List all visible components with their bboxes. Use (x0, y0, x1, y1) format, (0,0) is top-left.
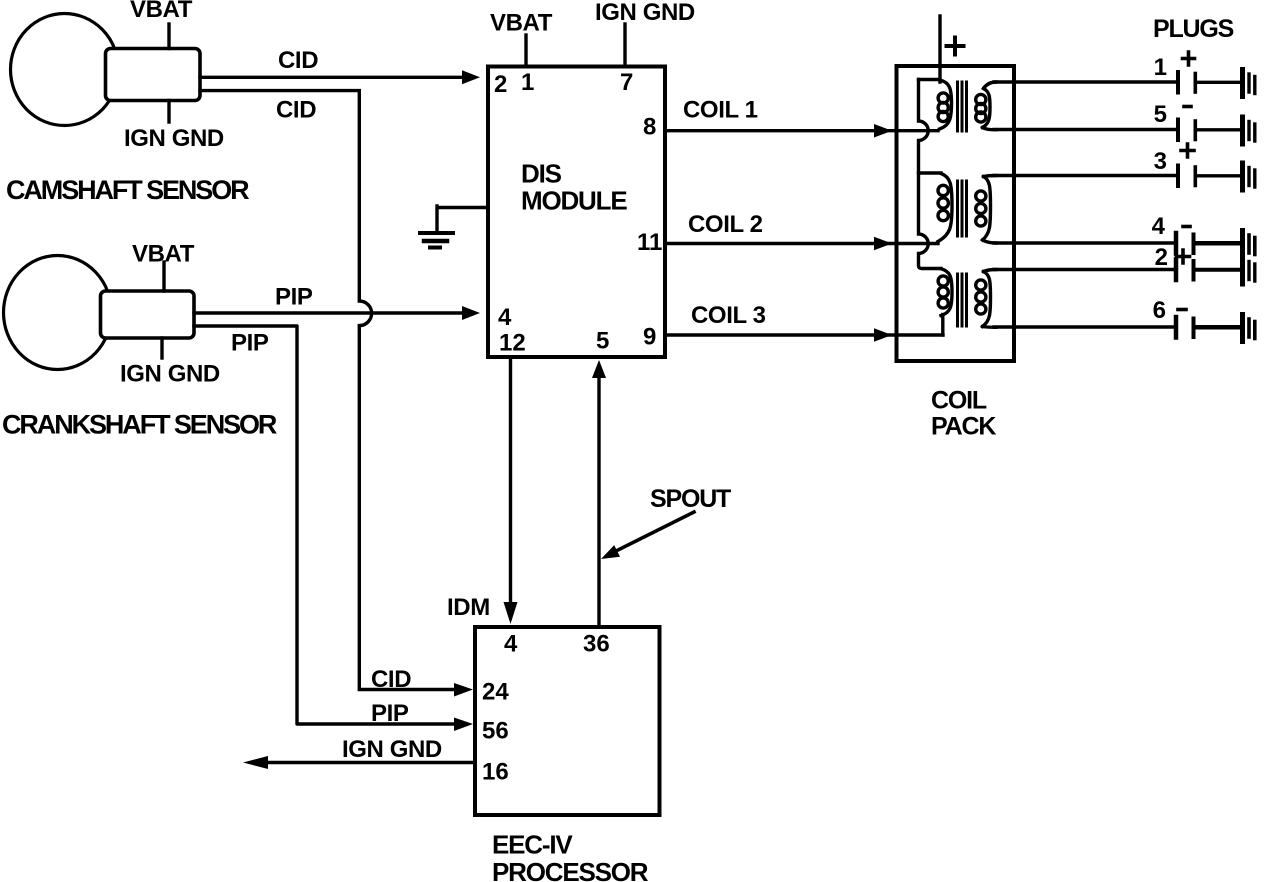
IGN GND stub into DIS pin 7 (623, 24, 626, 66)
plug 5 wire (994, 128, 1176, 131)
crankshaft sensor connector rect (101, 291, 195, 338)
plug 6 spark gap electrodes (1174, 317, 1179, 338)
T2 secondary top stub to plug 3 wire (984, 176, 997, 177)
svg-text:COIL 2: COIL 2 (688, 211, 763, 238)
transformer T1 secondary winding (983, 89, 991, 128)
arrowhead COIL 1 into coil pack (874, 124, 892, 138)
svg-text:9: 9 (643, 324, 656, 351)
wire SPOUT (EEC pin 36 up to DIS pin 5) (597, 378, 600, 627)
crankshaft sensor body circle (4, 256, 112, 370)
plug 3 stub to shell (1197, 174, 1240, 177)
svg-text:7: 7 (620, 69, 633, 96)
svg-text:PLUGS: PLUGS (1153, 15, 1234, 43)
svg-text:PIP: PIP (275, 284, 313, 311)
camshaft sensor connector rect (106, 49, 201, 101)
plug 1 polarity sign + (1183, 52, 1195, 65)
plug 2 polarity sign + (1177, 250, 1190, 263)
plug 4 stub to shell (1195, 241, 1240, 246)
plug 1 spark gap electrodes (1176, 72, 1180, 93)
svg-text:CID: CID (278, 47, 318, 74)
T3 secondary bottom stub to plug 6 wire (983, 325, 997, 329)
svg-text:1: 1 (521, 69, 534, 96)
crankshaft VBAT stub wire (162, 262, 165, 291)
crankshaft IGN GND stub wire (160, 338, 163, 358)
plug 1 wire (994, 80, 1176, 83)
wire COIL 1 (DIS pin 8 to coil pack) (665, 129, 938, 132)
transformer T1 primary winding (940, 80, 952, 129)
plug 2 wire (994, 268, 1174, 271)
plug 4 spark gap electrodes (1174, 233, 1179, 254)
wire PIP upper (crankshaft to DIS pin 4) (194, 311, 464, 314)
plug 2 shell ground bars (1240, 257, 1245, 284)
svg-text:IGN GND: IGN GND (595, 0, 695, 26)
svg-text:PACK: PACK (931, 413, 996, 441)
plug 6 wire (994, 325, 1174, 328)
wire CID lower (camshaft to EEC pin 24, with hop over PIP crossing) (200, 91, 456, 690)
arrowhead COIL 2 into coil pack (874, 237, 892, 251)
plug 5 shell ground bars (1240, 117, 1245, 144)
svg-text:6: 6 (1153, 297, 1166, 324)
camshaft VBAT stub wire (167, 24, 170, 49)
transformer T3 core (958, 274, 967, 326)
svg-text:36: 36 (583, 631, 610, 658)
svg-text:COIL 1: COIL 1 (683, 97, 758, 124)
svg-text:56: 56 (482, 718, 509, 745)
svg-text:VBAT: VBAT (130, 0, 193, 23)
EEC-IV processor box U2 (475, 627, 660, 815)
svg-text:PROCESSOR: PROCESSOR (492, 857, 649, 882)
SPOUT callout arrowhead (601, 545, 620, 559)
svg-text:5: 5 (596, 328, 609, 355)
svg-text:IGN GND: IGN GND (120, 361, 220, 388)
plug 6 shell ground bars (1240, 315, 1245, 342)
T3 primary riser to COIL 3 wire (941, 315, 944, 336)
svg-text:24: 24 (482, 679, 509, 706)
arrowhead COIL 3 into coil pack (874, 328, 892, 342)
svg-text:COIL 3: COIL 3 (691, 302, 766, 329)
plus symbol (947, 38, 964, 55)
svg-text:CAMSHAFT SENSOR: CAMSHAFT SENSOR (6, 175, 249, 205)
camshaft sensor body circle (11, 14, 119, 126)
svg-text:VBAT: VBAT (490, 10, 553, 37)
svg-text:PIP: PIP (231, 330, 269, 357)
arrowhead into EEC pin 56 (454, 718, 473, 732)
plug 5 stub to shell (1197, 128, 1240, 131)
VBAT stub into DIS pin 1 (524, 35, 527, 66)
plug 3 spark gap electrodes (1176, 166, 1180, 187)
T3 secondary top stub to plug 2 wire (984, 270, 997, 272)
transformer T3 secondary winding (983, 272, 991, 327)
arrowhead IGN GND pointing left (243, 756, 268, 769)
wire IDM (DIS pin 12 down to EEC pin 4) (509, 359, 512, 604)
svg-text:5: 5 (1154, 101, 1167, 128)
plug 4 wire (994, 241, 1174, 244)
svg-text:DIS: DIS (521, 159, 562, 189)
plug 3 polarity sign + (1181, 144, 1194, 157)
transformer T2 primary winding (938, 174, 952, 242)
wire COIL 3 (DIS pin 9 to coil pack) (665, 333, 943, 336)
plug 5 polarity sign - (1184, 105, 1191, 109)
plug 6 polarity sign - (1178, 308, 1186, 312)
svg-text:4: 4 (504, 631, 518, 658)
arrowhead into DIS pin 4 (462, 306, 480, 320)
svg-text:2: 2 (494, 71, 507, 98)
arrowhead IDM into EEC pin 4 (504, 602, 518, 624)
svg-text:PIP: PIP (371, 700, 409, 727)
svg-text:12: 12 (499, 330, 526, 357)
plug 1 stub to shell (1197, 81, 1240, 84)
arrowhead SPOUT into DIS pin 5 (592, 360, 606, 378)
plug 6 stub to shell (1195, 325, 1240, 330)
plug 3 shell ground bars (1240, 163, 1245, 190)
wire COIL 2 (DIS pin 11 to coil pack) (665, 242, 938, 245)
svg-text:2: 2 (1155, 244, 1168, 271)
plug 1 shell ground bars (1240, 70, 1245, 97)
plug 5 spark gap electrodes (1176, 120, 1180, 141)
svg-text:IGN GND: IGN GND (124, 125, 224, 152)
transformer T2 core (958, 181, 967, 236)
svg-text:MODULE: MODULE (521, 186, 627, 216)
T2 secondary bottom stub to plug 4 wire (983, 240, 997, 243)
bus stub to transformer 2 primary (919, 171, 942, 174)
svg-text:11: 11 (637, 229, 662, 256)
svg-text:EEC-IV: EEC-IV (492, 830, 573, 860)
camshaft IGN GND stub wire (167, 101, 170, 123)
T1 secondary bottom stub to plug 5 wire (983, 128, 997, 130)
transformer T3 primary winding (941, 269, 952, 316)
svg-text:1: 1 (1154, 54, 1167, 81)
wire CID upper (camshaft to DIS pin 2) (200, 76, 464, 79)
B+ branch to primary bus (919, 78, 941, 81)
svg-text:VBAT: VBAT (132, 241, 195, 268)
svg-text:CRANKSHAFT SENSOR: CRANKSHAFT SENSOR (2, 410, 277, 440)
arrowhead into DIS pin 2 (462, 70, 480, 84)
svg-text:4: 4 (1152, 213, 1166, 240)
svg-text:IGN GND: IGN GND (342, 736, 442, 763)
plug 2 stub to shell (1195, 268, 1240, 272)
ground symbol at DIS left (437, 206, 488, 233)
svg-text:IDM: IDM (447, 594, 490, 621)
svg-text:16: 16 (482, 759, 509, 786)
svg-text:3: 3 (1154, 148, 1167, 175)
plug 2 spark gap electrodes (1174, 260, 1179, 281)
primary supply bus with hops over COIL1 and COIL2 wires (919, 80, 942, 269)
svg-text:COIL: COIL (931, 387, 987, 415)
DIS module box U1 (488, 67, 665, 358)
svg-text:SPOUT: SPOUT (650, 485, 731, 513)
coil pack box (897, 66, 1015, 361)
transformer T1 core (958, 82, 967, 131)
svg-text:4: 4 (498, 304, 512, 331)
SPOUT callout diagonal line (614, 512, 694, 552)
wire PIP lower (crankshaft to EEC pin 56) (194, 326, 456, 724)
T1 secondary top stub to plug 1 wire (984, 82, 997, 89)
svg-text:CID: CID (371, 666, 411, 693)
svg-text:8: 8 (643, 114, 656, 141)
plug 4 polarity sign - (1183, 225, 1190, 229)
B+ feed wire into coil pack (938, 16, 941, 82)
wire IGN GND out of EEC pin 16 (267, 761, 473, 764)
svg-text:CID: CID (276, 97, 316, 124)
arrowhead into EEC pin 24 (454, 683, 473, 697)
transformer T2 secondary winding (983, 177, 991, 241)
plug 3 wire (994, 174, 1176, 177)
plug 4 shell ground bars (1240, 231, 1245, 258)
